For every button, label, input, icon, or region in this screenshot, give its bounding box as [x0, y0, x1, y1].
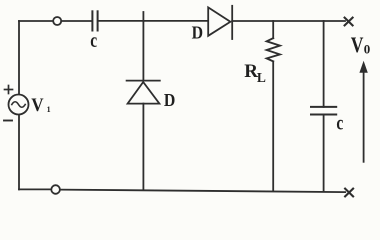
svg-text:0: 0 [364, 42, 371, 57]
terminal (bottom input, open circle) [51, 185, 60, 194]
diode D1 (series, pointing right) [208, 6, 232, 39]
wire top left segment [19, 20, 53, 22]
diode D2 (shunt, cathode up) [127, 81, 160, 104]
svg-text:L: L [257, 70, 266, 85]
wire output node down to resistor RL [272, 21, 274, 38]
svg-text:D: D [164, 90, 175, 110]
svg-text:V: V [351, 33, 364, 57]
resistor RL zigzag [267, 38, 280, 61]
wire resistor RL to bottom rail [272, 61, 274, 190]
wire capacitor to diode D1 anode [99, 20, 208, 22]
capacitor C (series) [92, 11, 97, 30]
svg-text:1: 1 [47, 105, 51, 114]
wire bottom rail [60, 190, 345, 193]
capacitor C2 (shunt) [311, 107, 336, 115]
minus polarity mark [4, 120, 12, 122]
wire terminal to capacitor [61, 20, 91, 22]
wire node A down to diode D2 cathode [142, 21, 144, 81]
wire diode D2 anode down to bottom rail [142, 104, 144, 190]
label RL (load resistor) [244, 61, 266, 85]
svg-text:V: V [31, 94, 43, 115]
wire capacitor C2 to bottom rail [323, 115, 325, 191]
junction tick node A [142, 12, 144, 21]
wire left vertical lower [18, 115, 20, 190]
x terminal top right [345, 18, 353, 26]
label V1 [31, 94, 50, 115]
label V0 (output voltage) [351, 33, 371, 57]
svg-text:D: D [192, 23, 203, 43]
plus polarity mark [5, 86, 13, 94]
wire D1 cathode to output node [232, 20, 345, 22]
ac source V1 [9, 95, 29, 115]
arrow V0 (output voltage) [359, 61, 367, 162]
wire left vertical (source branch) [18, 21, 20, 95]
wire output node down to capacitor C2 [323, 21, 325, 107]
svg-text:c: c [90, 29, 97, 52]
wire bottom rail left segment [19, 188, 51, 190]
terminal (top input, open circle) [53, 17, 61, 25]
svg-text:c: c [336, 111, 343, 134]
x terminal bottom right [345, 189, 353, 197]
